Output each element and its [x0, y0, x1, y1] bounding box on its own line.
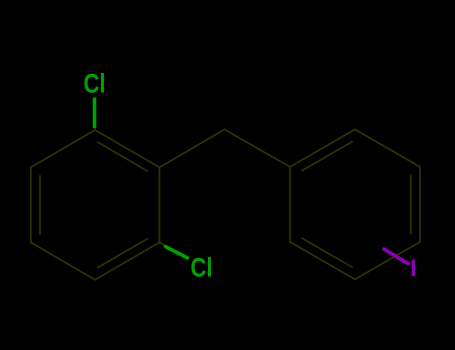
wire CH2 bridge left segment [160, 130, 225, 168]
svg-text:I: I [410, 255, 417, 282]
wire TL-T [31, 130, 95, 167]
wire CH2 bridge right segment [225, 130, 291, 167]
double bond inner line BR-B [98, 239, 148, 268]
bond C-I (purple) [384, 249, 408, 264]
benzene ring left (2,6-dichlorophenyl) outline [31, 123, 290, 280]
double bond inner line V1-V2 [302, 142, 352, 171]
wire V4-V5 [355, 242, 420, 280]
benzene ring right (4-iodophenyl) outline [290, 129, 420, 279]
svg-text:Cl: Cl [191, 253, 213, 283]
wire V2-V3 [355, 129, 420, 167]
wire V5-V6 [290, 242, 355, 280]
wire BR-B [95, 242, 160, 279]
bond C-Cl1 (green) [93, 99, 97, 127]
wire V3-V4 [419, 167, 421, 242]
wire C-Cl2 dark stub [160, 242, 166, 245]
wire B-BL [31, 242, 95, 279]
double bond inner line BL-TL [39, 176, 41, 234]
bond C-Cl2 (green) [166, 247, 188, 258]
wire TR-BR [159, 167, 161, 242]
wire V1-V2 [290, 129, 355, 167]
wire C-Cl1 dark stub [94, 123, 97, 130]
wire V6-V1 [289, 167, 291, 242]
double bond inner line V3-V4 [410, 175, 412, 233]
double bond inner line V5-V6 [302, 238, 352, 267]
wire BL-TL [30, 167, 32, 242]
double bond inner line T-TR [98, 142, 148, 171]
svg-text:Cl: Cl [84, 69, 106, 99]
wire T-TR [95, 130, 160, 167]
